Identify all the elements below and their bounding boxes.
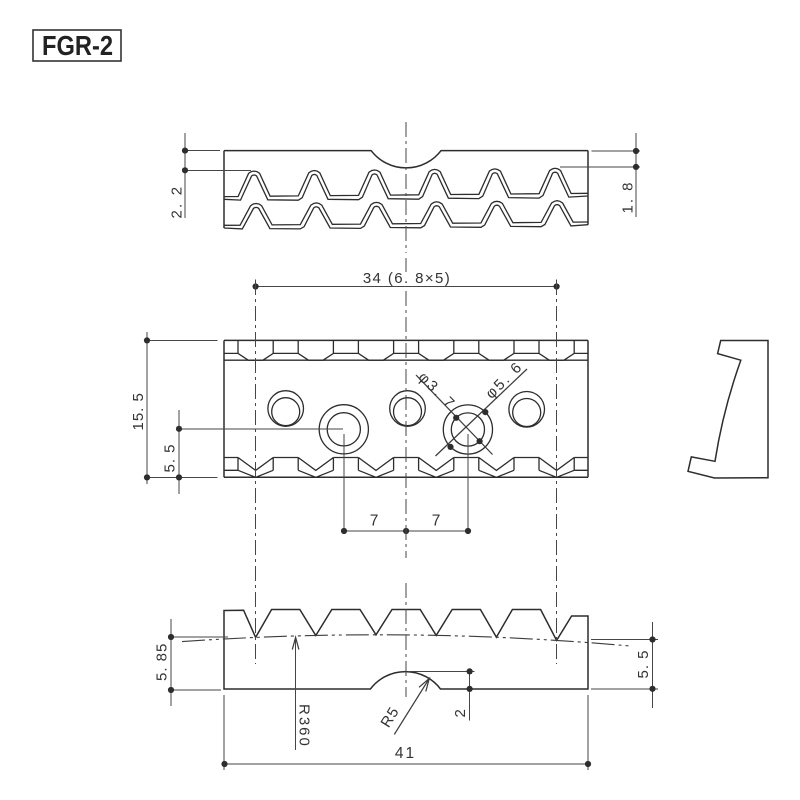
svg-text:1. 8: 1. 8 bbox=[620, 180, 637, 213]
dimension 1.8 dot bottom bbox=[633, 164, 639, 170]
dimension 5.5 right line bbox=[652, 622, 654, 708]
dimension 41 line bbox=[225, 763, 589, 765]
dimension 15.5 dot bottom bbox=[144, 474, 150, 480]
svg-text:34 (6. 8×5): 34 (6. 8×5) bbox=[363, 270, 451, 287]
plan view top band string scallops bbox=[238, 340, 574, 360]
dimension 7 ext right from screw bbox=[467, 434, 469, 531]
dimension 2 ext top bbox=[409, 670, 475, 672]
dimension 5.85 dot bottom bbox=[168, 687, 174, 693]
dimension 7 line bbox=[344, 530, 468, 532]
screw hole left bore ø3.7 bbox=[327, 413, 360, 446]
plan view top band lower line bbox=[224, 359, 588, 361]
dimension 15.5 dot top bbox=[144, 337, 150, 343]
dimension 7 dot left bbox=[341, 528, 347, 534]
svg-text:2: 2 bbox=[452, 709, 469, 717]
top view left edge bbox=[223, 151, 225, 229]
dimension 41 ext right bbox=[587, 695, 589, 770]
string pad hole 3 outer bbox=[509, 392, 545, 428]
title box FGR-2 bbox=[33, 30, 121, 61]
dimension 5.5 dot bottom bbox=[176, 474, 182, 480]
dimension 1.8 ext bottom bbox=[560, 166, 640, 168]
svg-text:FGR-2: FGR-2 bbox=[42, 30, 113, 61]
plan view bottom edge bbox=[224, 476, 588, 478]
dimension 2 dot bottom bbox=[467, 686, 473, 692]
centerline string 6 bbox=[556, 280, 558, 664]
dimension 15.5 ext bottom bbox=[149, 476, 218, 478]
svg-text:R360: R360 bbox=[296, 704, 313, 748]
svg-text:5. 5: 5. 5 bbox=[162, 443, 179, 472]
top view right edge bbox=[587, 151, 589, 225]
plan view bottom band bridge lines bbox=[224, 458, 588, 471]
leader ø5.6 dot upper bbox=[482, 409, 488, 415]
screw hole left counterbore ø5.6 bbox=[319, 405, 368, 454]
string pad hole 3 chamfer bbox=[513, 399, 541, 427]
dimension 41 ext left bbox=[223, 695, 225, 770]
plan view right edge bbox=[587, 340, 589, 477]
top view serration row 2 outer line bbox=[224, 201, 588, 226]
side profile view outline bbox=[688, 341, 768, 479]
leader R360 arrowhead bbox=[292, 637, 299, 649]
dimension 5.5 right dot bottom bbox=[649, 686, 655, 692]
plan view top band bridge lines bbox=[224, 352, 588, 354]
plan view left edge bbox=[223, 340, 225, 477]
top view outline top edge with string-clamp notch bbox=[224, 151, 588, 168]
dimension 5.5 dot top bbox=[176, 426, 182, 432]
dimension 5.5 right dot top bbox=[649, 636, 655, 642]
leader R5 arrowhead bbox=[419, 678, 429, 691]
dimension 34 line bbox=[256, 286, 557, 288]
dimension 5.85 line bbox=[170, 619, 172, 706]
centerline middle plan view bbox=[405, 291, 407, 558]
dimension 34 overshoot right bbox=[556, 280, 558, 292]
front view outline with clamp teeth and R5 relief bbox=[224, 610, 588, 690]
dimension 2.2 dot bottom bbox=[182, 167, 188, 173]
dimension 5.85 dot top bbox=[168, 634, 174, 640]
svg-text:5. 5: 5. 5 bbox=[635, 649, 652, 678]
dimension 5.5 line bbox=[178, 410, 180, 494]
dimension 5.5 right ext top bbox=[591, 639, 658, 641]
svg-text:2. 2: 2. 2 bbox=[169, 185, 186, 219]
dimension 7 dot right bbox=[465, 528, 471, 534]
dimension 41 dot right bbox=[585, 761, 591, 767]
top view serration row 2 inner line bbox=[224, 205, 588, 229]
plan view top edge bbox=[224, 339, 588, 341]
leader ø3.7 dot upper bbox=[453, 415, 459, 421]
svg-text:7: 7 bbox=[432, 513, 441, 530]
dimension 2.2 line bbox=[184, 133, 186, 218]
dimension 2.2 dot top bbox=[182, 148, 188, 154]
leader ø3.7 line bbox=[416, 375, 493, 455]
string pad hole 1 chamfer bbox=[272, 398, 300, 426]
top view serration row 1 outer line bbox=[224, 168, 588, 196]
dimension 1.8 ext top bbox=[592, 150, 641, 152]
dimension 2.2 ext top bbox=[187, 150, 220, 152]
dimension 1.8 line bbox=[635, 133, 637, 217]
svg-text:41: 41 bbox=[395, 745, 416, 762]
screw hole right counterbore ø5.6 bbox=[443, 405, 492, 454]
dimension 34 dot left bbox=[253, 283, 259, 289]
leader ø5.6 line bbox=[436, 369, 528, 456]
dimension 34 dot right bbox=[554, 283, 560, 289]
dimension 41 dot left bbox=[221, 761, 227, 767]
string pad hole 2 outer bbox=[390, 391, 426, 427]
dimension 34 overshoot left bbox=[255, 280, 257, 292]
dimension 15.5 ext top bbox=[149, 339, 218, 341]
leader R360 line bbox=[295, 639, 297, 750]
dimension 5.5 leader to screw center bbox=[181, 428, 343, 430]
dimension 5.85 ext bottom bbox=[173, 689, 221, 691]
svg-text:15. 5: 15. 5 bbox=[130, 392, 147, 430]
dimension 5.85 ext top bbox=[173, 636, 228, 638]
screw hole right bore ø3.7 bbox=[451, 413, 484, 446]
dimension 15.5 line bbox=[146, 332, 148, 484]
leader R5 line bbox=[394, 678, 429, 734]
dimension 7 dot center bbox=[403, 528, 409, 534]
svg-text:5. 85: 5. 85 bbox=[154, 643, 171, 681]
dimension 7 ext left from screw bbox=[343, 434, 345, 531]
string pad hole 2 chamfer bbox=[394, 398, 422, 426]
phantom line R360 fretboard radius arc bbox=[182, 635, 630, 646]
dimension 2 line bbox=[469, 671, 471, 720]
centerline middle top view bbox=[405, 122, 407, 253]
svg-text:7: 7 bbox=[370, 513, 379, 530]
leader ø5.6 dot lower bbox=[447, 444, 453, 450]
centerline middle front view bbox=[405, 583, 407, 697]
dimension 1.8 dot top bbox=[633, 148, 639, 154]
string pad hole 1 outer bbox=[268, 391, 304, 427]
dimension 2 dot top bbox=[467, 668, 473, 674]
dimension 2.2 ext bottom bbox=[187, 169, 251, 171]
leader ø3.7 dot lower bbox=[477, 438, 483, 444]
top view serration row 1 inner line bbox=[224, 172, 588, 200]
centerline string 1 bbox=[255, 280, 257, 664]
dimension 5.5 right ext bottom bbox=[591, 688, 658, 690]
plan view bottom band chevrons bbox=[238, 458, 574, 478]
centerline middle short segment bbox=[405, 258, 407, 272]
